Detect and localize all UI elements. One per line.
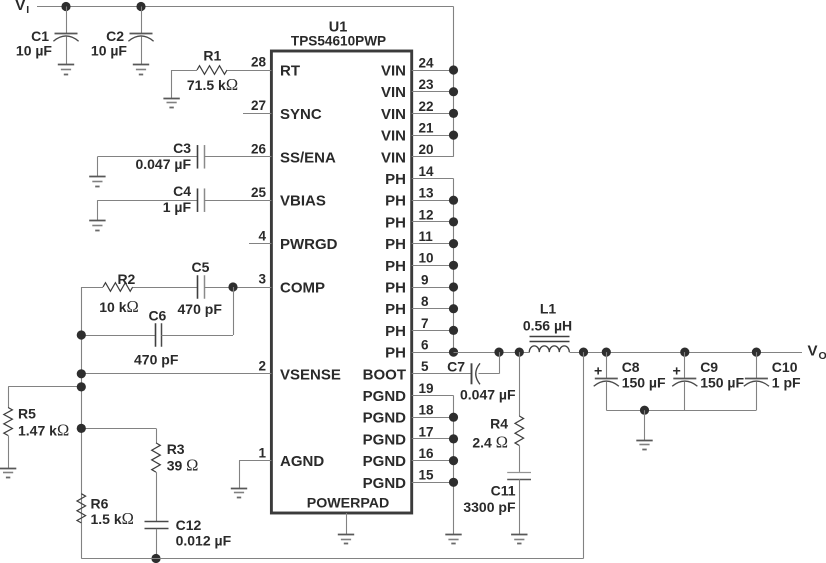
svg-text:3: 3 [258,272,266,287]
svg-text:24: 24 [419,55,435,70]
svg-text:VBIAS: VBIAS [280,193,326,210]
svg-text:9: 9 [421,272,429,287]
svg-text:V: V [808,343,818,360]
svg-text:C4: C4 [173,183,191,199]
svg-text:I: I [26,4,29,16]
svg-text:R6: R6 [91,496,109,512]
svg-text:7: 7 [421,316,429,331]
svg-text:PH: PH [385,214,406,231]
svg-text:2.4 Ω: 2.4 Ω [472,433,508,452]
svg-text:R1: R1 [203,48,221,64]
svg-text:23: 23 [419,77,435,92]
svg-text:16: 16 [419,446,435,461]
svg-text:PGND: PGND [363,475,407,492]
svg-text:C7: C7 [447,359,465,375]
svg-text:PH: PH [385,193,406,210]
svg-text:RT: RT [280,63,300,80]
svg-text:TPS54610PWP: TPS54610PWP [291,34,386,49]
svg-text:20: 20 [419,142,434,157]
svg-text:C8: C8 [622,359,640,375]
svg-text:COMP: COMP [280,280,325,297]
svg-text:0.047 µF: 0.047 µF [460,387,516,403]
svg-text:C3: C3 [173,140,191,156]
svg-text:+: + [594,363,602,379]
svg-text:12: 12 [419,207,434,222]
svg-text:VSENSE: VSENSE [280,366,341,383]
svg-text:SYNC: SYNC [280,106,322,123]
svg-text:PGND: PGND [363,410,407,427]
svg-text:1.5 kΩ: 1.5 kΩ [91,509,134,528]
svg-text:4: 4 [258,228,266,243]
svg-text:0.047 µF: 0.047 µF [135,156,191,172]
svg-text:71.5 kΩ: 71.5 kΩ [187,75,238,94]
svg-text:PWRGD: PWRGD [280,236,338,253]
svg-text:R3: R3 [167,441,185,457]
svg-text:R5: R5 [18,406,36,422]
svg-text:PGND: PGND [363,453,407,470]
svg-text:25: 25 [251,185,267,200]
svg-text:14: 14 [419,164,435,179]
svg-text:VIN: VIN [381,84,406,101]
svg-text:C6: C6 [148,308,166,324]
svg-text:17: 17 [419,424,434,439]
svg-text:C11: C11 [491,483,516,499]
svg-text:PGND: PGND [363,388,407,405]
svg-text:470 pF: 470 pF [178,301,223,317]
svg-text:PH: PH [385,236,406,253]
svg-text:R2: R2 [117,271,135,287]
svg-text:26: 26 [251,142,267,157]
svg-text:R4: R4 [490,416,508,432]
svg-text:C9: C9 [700,359,718,375]
svg-text:8: 8 [421,294,429,309]
svg-text:22: 22 [419,99,434,114]
svg-text:O: O [819,350,826,362]
svg-text:13: 13 [419,186,435,201]
svg-text:BOOT: BOOT [363,366,406,383]
svg-text:28: 28 [251,55,267,70]
svg-text:11: 11 [419,229,434,244]
svg-text:27: 27 [251,98,266,113]
svg-text:10 kΩ: 10 kΩ [99,297,139,316]
svg-text:39 Ω: 39 Ω [167,456,199,475]
svg-text:VIN: VIN [381,63,406,80]
svg-text:VIN: VIN [381,128,406,145]
svg-text:PH: PH [385,280,406,297]
svg-text:VIN: VIN [381,106,406,123]
svg-text:C5: C5 [192,259,210,275]
svg-text:10 µF: 10 µF [16,43,53,59]
svg-text:21: 21 [419,121,435,136]
svg-text:C10: C10 [772,359,798,375]
svg-text:19: 19 [419,381,434,396]
svg-text:C12: C12 [176,517,202,533]
svg-text:15: 15 [419,468,435,483]
svg-text:AGND: AGND [280,453,324,470]
svg-text:PH: PH [385,171,406,188]
svg-text:1: 1 [258,445,266,460]
svg-text:POWERPAD: POWERPAD [307,496,390,512]
svg-text:PGND: PGND [363,431,407,448]
svg-text:+: + [673,363,681,379]
svg-text:1 pF: 1 pF [772,375,801,391]
svg-text:0.56 µH: 0.56 µH [523,318,572,334]
svg-text:150 µF: 150 µF [622,375,666,391]
svg-text:10: 10 [419,251,434,266]
svg-text:L1: L1 [540,301,557,317]
svg-text:10 µF: 10 µF [91,43,128,59]
svg-text:PH: PH [385,323,406,340]
svg-text:1 µF: 1 µF [163,199,192,215]
svg-text:470 pF: 470 pF [134,352,179,368]
svg-text:PH: PH [385,301,406,318]
svg-text:150 µF: 150 µF [700,375,744,391]
svg-text:SS/ENA: SS/ENA [280,149,336,166]
svg-text:PH: PH [385,258,406,275]
svg-text:VIN: VIN [381,149,406,166]
svg-text:PH: PH [385,345,406,362]
svg-text:6: 6 [421,338,429,353]
svg-text:0.012 µF: 0.012 µF [176,533,232,549]
svg-text:5: 5 [421,359,429,374]
svg-text:1.47 kΩ: 1.47 kΩ [18,421,69,440]
svg-text:18: 18 [419,403,435,418]
svg-text:2: 2 [258,359,266,374]
svg-text:3300 pF: 3300 pF [463,499,516,515]
svg-text:V: V [15,0,25,14]
